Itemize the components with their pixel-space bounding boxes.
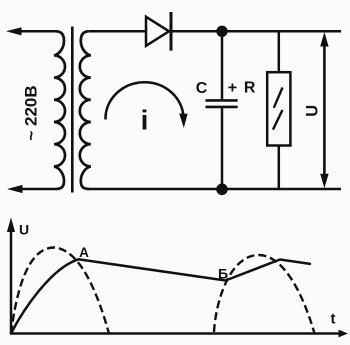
node: top junction — [216, 26, 227, 37]
arrowhead: Y axis — [7, 218, 15, 233]
resistor R slash 1 — [274, 88, 283, 108]
svg-text:C: C — [196, 80, 208, 97]
graph X axis — [10, 332, 341, 335]
arrowhead: U top — [320, 32, 328, 47]
transformer secondary winding — [80, 31, 91, 189]
dashed rectified half-sine pulse 1 — [11, 248, 109, 334]
svg-text:+: + — [228, 80, 237, 97]
transformer primary winding — [54, 31, 65, 189]
wire: primary bottom lead with left arrow — [15, 188, 56, 191]
graph Y axis — [10, 228, 13, 334]
diode VD cathode bar — [170, 12, 173, 51]
arrowhead: bottom-left — [7, 185, 23, 193]
transformer core — [71, 27, 74, 193]
resistor R slash 2 — [273, 110, 283, 130]
svg-text:U: U — [304, 105, 322, 117]
svg-text:А: А — [79, 245, 89, 260]
wire: primary top lead with left arrow — [14, 30, 56, 33]
voltage U double arrow — [323, 39, 326, 182]
svg-text:U: U — [19, 221, 29, 237]
svg-text:~ 220В: ~ 220В — [22, 85, 41, 140]
arrowhead: U bottom — [320, 174, 328, 189]
wire: diode to top node to right end — [172, 30, 341, 33]
wire: secondary bottom lead to right end — [88, 188, 341, 191]
resistor R bottom lead — [278, 146, 281, 190]
solid capacitor voltage curve through A and B — [11, 259, 311, 333]
resistor R top lead — [278, 31, 281, 72]
arrowhead: top-left (~220V line) — [6, 27, 22, 35]
svg-text:t: t — [331, 311, 336, 328]
capacitor C bottom lead — [221, 107, 224, 189]
capacitor C plates — [206, 100, 238, 107]
svg-text:Б: Б — [218, 266, 228, 282]
dashed rectified half-sine pulse 2 — [214, 255, 315, 334]
wire: secondary top lead to diode — [89, 30, 146, 33]
svg-text:R: R — [244, 80, 256, 97]
arrowhead: current loop — [179, 114, 187, 129]
svg-text:i: i — [141, 105, 149, 136]
resistor R body — [267, 72, 290, 145]
current loop arrow i — [105, 82, 183, 119]
node: bottom junction — [216, 184, 228, 196]
capacitor C top lead — [221, 31, 224, 100]
diode VD triangle — [146, 17, 169, 46]
arrowhead: X axis (t) — [339, 330, 349, 338]
